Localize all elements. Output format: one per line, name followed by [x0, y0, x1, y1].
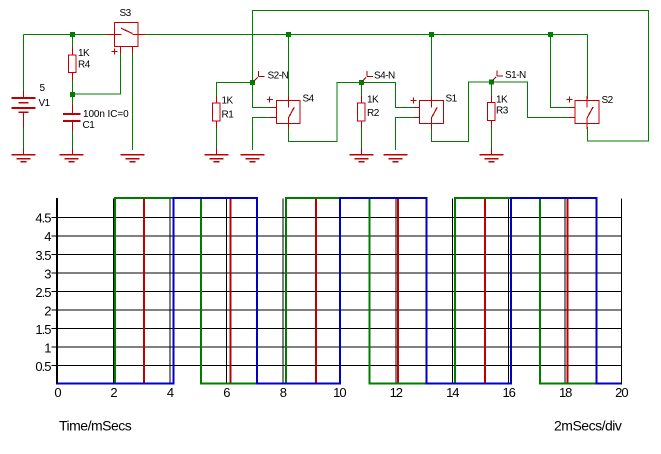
svg-text:S4-N: S4-N — [374, 71, 395, 82]
svg-text:14: 14 — [446, 385, 459, 400]
wire node S1-N to S2 lower input — [492, 82, 576, 118]
junction node S1-N — [489, 80, 494, 85]
svg-text:2: 2 — [110, 385, 117, 400]
node marker S1-N — [492, 70, 503, 81]
graph grid vertical lines — [114, 198, 622, 384]
wire S1 top pin to rail — [431, 35, 433, 100]
svg-text:2.5: 2.5 — [35, 285, 51, 300]
svg-text:1.5: 1.5 — [35, 322, 51, 337]
svg-text:Time/mSecs: Time/mSecs — [59, 418, 132, 434]
junction node S2-N — [250, 80, 255, 85]
svg-text:1K: 1K — [496, 94, 508, 105]
wire C1 branch to ground — [72, 95, 74, 151]
wire S3 minus to ground — [132, 50, 134, 150]
svg-text:R2: R2 — [367, 108, 380, 119]
wire R3 to ground — [491, 120, 493, 150]
svg-text:S4: S4 — [303, 94, 315, 105]
wire node S4-N to R2 — [361, 83, 363, 99]
svg-text:S1-N: S1-N — [505, 70, 526, 81]
y axis labels — [35, 211, 51, 374]
junction node R4 C1 — [70, 92, 75, 97]
junction node above R4 — [70, 32, 75, 37]
svg-text:R3: R3 — [496, 106, 509, 117]
switch S4 — [267, 96, 300, 129]
svg-text:6: 6 — [223, 385, 230, 400]
svg-text:S3: S3 — [120, 8, 132, 19]
trace red V(S4-N) — [57, 198, 621, 384]
wire V1 bottom to ground — [23, 125, 25, 150]
wire S2 top pin — [587, 35, 589, 100]
resistor R3 — [488, 96, 496, 155]
ground below R3 — [480, 154, 504, 162]
svg-text:4: 4 — [167, 385, 174, 400]
svg-text:3: 3 — [44, 266, 51, 281]
wire R2 to ground — [361, 121, 363, 150]
svg-text:1K: 1K — [78, 48, 90, 59]
ground below S1 minus — [384, 154, 408, 162]
wire S4 top pin to rail — [288, 35, 290, 100]
ground below R2 — [350, 154, 374, 162]
svg-text:20: 20 — [615, 385, 628, 400]
wire S1 minus to ground — [396, 118, 420, 151]
svg-text:5: 5 — [40, 83, 46, 94]
svg-text:1K: 1K — [222, 96, 234, 107]
svg-text:1: 1 — [44, 341, 51, 356]
svg-text:V1: V1 — [39, 98, 51, 109]
wire node C1 to S3 control — [73, 48, 121, 94]
svg-text:S2: S2 — [602, 95, 614, 106]
junction node S4-N — [359, 80, 364, 85]
ground below V1 — [12, 154, 36, 162]
voltage source V1 — [23, 90, 25, 155]
svg-text:0: 0 — [54, 385, 61, 400]
wire node S2-N to R1 — [217, 83, 253, 99]
ground below S3 — [121, 154, 145, 162]
svg-text:4: 4 — [44, 229, 51, 244]
ground below R1 — [205, 154, 229, 162]
node marker S2-N — [254, 71, 265, 82]
svg-text:S2-N: S2-N — [268, 71, 289, 82]
svg-text:2mSecs/div: 2mSecs/div — [554, 418, 622, 434]
svg-text:C1: C1 — [83, 120, 96, 131]
wire R1 to ground — [216, 121, 218, 150]
wire node S4-N to S1 plus control — [362, 83, 420, 108]
wire R4 branch — [72, 35, 74, 95]
switch S2 — [567, 96, 599, 129]
svg-text:2: 2 — [44, 303, 51, 318]
resistor R1 — [213, 96, 221, 155]
svg-text:100n IC=0: 100n IC=0 — [83, 109, 129, 120]
capacitor C1 — [72, 104, 74, 155]
svg-text:12: 12 — [390, 385, 403, 400]
switch S1 — [411, 96, 444, 129]
svg-text:1K: 1K — [367, 95, 379, 106]
graph y axis — [56, 198, 58, 385]
ground below C1 — [60, 154, 84, 162]
wire S4 minus to ground — [253, 118, 277, 151]
switch S3 — [107, 23, 147, 55]
wire supply rail left segment — [24, 34, 115, 36]
junction node S1 top — [429, 32, 434, 37]
x axis labels — [54, 385, 628, 400]
svg-text:4.5: 4.5 — [35, 211, 51, 226]
junction node rail S2 control — [548, 32, 553, 37]
resistor R2 — [358, 96, 366, 155]
svg-text:R4: R4 — [78, 60, 91, 71]
ground below S4 minus — [241, 154, 265, 162]
svg-text:18: 18 — [559, 385, 572, 400]
svg-text:0.5: 0.5 — [35, 359, 51, 374]
wire top feedback rail — [253, 11, 649, 142]
wire V1 top — [23, 35, 25, 92]
junction node S4 top — [286, 32, 291, 37]
svg-text:16: 16 — [502, 385, 515, 400]
wire supply rail right segment — [138, 34, 588, 36]
svg-text:8: 8 — [280, 385, 287, 400]
trace blue V(S1-N) — [57, 198, 621, 384]
wire node S1-N to R3 — [491, 82, 493, 98]
svg-text:10: 10 — [333, 385, 346, 400]
svg-text:3.5: 3.5 — [35, 248, 51, 263]
svg-text:R1: R1 — [222, 110, 235, 121]
svg-text:S1: S1 — [446, 94, 458, 105]
wire S4 output to node S4-N — [289, 83, 362, 142]
wire node S2-N to S4 plus control — [253, 84, 277, 108]
resistor R4 — [69, 47, 77, 81]
graph grid horizontal lines — [52, 217, 622, 365]
trace green V(S2-N) — [57, 198, 621, 384]
wire S1 output to node S1-N — [432, 82, 492, 142]
node marker S4-N — [362, 71, 373, 82]
wire rail to S2 plus control — [551, 35, 576, 108]
